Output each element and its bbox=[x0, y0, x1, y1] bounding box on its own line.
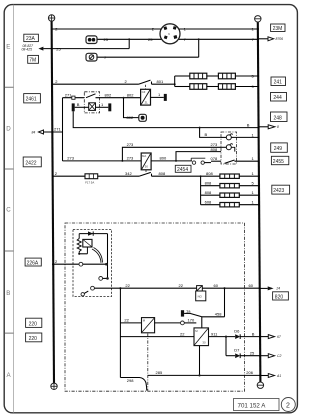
junction node bbox=[105, 263, 108, 266]
svg-text:1a: 1a bbox=[186, 308, 191, 313]
node 808 bbox=[200, 175, 202, 177]
svg-text:808: 808 bbox=[205, 181, 212, 186]
component box 220 lower bbox=[26, 333, 42, 342]
wire 271 row bbox=[63, 97, 85, 99]
wire to terminal bbox=[155, 322, 181, 324]
diode D7 bbox=[234, 347, 240, 358]
wire 5 to bus bbox=[235, 75, 259, 77]
connector flag left (motor row) bbox=[72, 103, 75, 111]
relay AR box bbox=[141, 153, 151, 170]
svg-text:25: 25 bbox=[56, 46, 61, 51]
wire 1 to connector flag bbox=[151, 96, 164, 98]
component box 23M bbox=[271, 24, 285, 32]
wire 7 U1 pin7 to right bus bbox=[179, 38, 259, 40]
svg-text:60: 60 bbox=[214, 283, 219, 288]
svg-text:2423: 2423 bbox=[273, 188, 284, 194]
svg-text:8: 8 bbox=[277, 125, 279, 129]
wire 802 bbox=[96, 97, 141, 99]
off-page arrow A1 bbox=[259, 375, 268, 377]
relay module dash-dot box bbox=[221, 132, 237, 164]
svg-text:808: 808 bbox=[206, 171, 213, 176]
off-page arrow 8706 bbox=[259, 38, 268, 40]
svg-text:249: 249 bbox=[274, 146, 283, 152]
svg-text:808: 808 bbox=[205, 190, 212, 195]
junction node bbox=[78, 253, 80, 255]
off-page arrow 24 bbox=[259, 287, 268, 289]
resistor R4 bbox=[218, 84, 235, 90]
inner dashed sub-box bbox=[73, 230, 112, 297]
svg-text:206: 206 bbox=[246, 370, 253, 375]
svg-text:241: 241 bbox=[274, 80, 283, 86]
component box 2461 bbox=[24, 94, 41, 103]
svg-text:23M: 23M bbox=[273, 26, 283, 32]
svg-text:C2: C2 bbox=[277, 354, 281, 358]
component box 2454 bbox=[175, 165, 191, 172]
wire 298 bbox=[120, 377, 139, 379]
contact arc bbox=[94, 248, 103, 263]
off-page arrow 67 bbox=[259, 336, 268, 338]
node 60 bbox=[223, 287, 225, 289]
svg-text:B: B bbox=[6, 290, 10, 297]
wire 808 link up bbox=[176, 152, 221, 161]
svg-text:25: 25 bbox=[104, 37, 109, 42]
wire 808 row bbox=[152, 175, 220, 177]
svg-text:342: 342 bbox=[125, 171, 132, 176]
off-page arrow B bbox=[268, 125, 275, 129]
relay coil 1 bbox=[226, 134, 232, 140]
relay coil 2 bbox=[226, 144, 232, 150]
horn symbol bbox=[86, 36, 97, 44]
wire 1 to bus bbox=[239, 194, 259, 196]
connector U1 round multi-pin bbox=[160, 24, 180, 44]
node 911 bbox=[225, 336, 227, 338]
branch to D7 bbox=[225, 337, 227, 356]
component box 220 upper bbox=[26, 318, 42, 327]
svg-text:22: 22 bbox=[124, 318, 129, 323]
wire 7 symbol row bbox=[97, 56, 199, 58]
title block 701 152 A bbox=[234, 399, 280, 411]
relay A box bbox=[142, 318, 155, 333]
switch link dashed bbox=[145, 85, 147, 90]
svg-text:25: 25 bbox=[148, 37, 153, 42]
bracket vertical bbox=[200, 176, 202, 205]
wire 808 row 2 bbox=[201, 185, 220, 187]
connector symbol bottom of right bus bbox=[257, 382, 263, 388]
off-page arrow C2 bbox=[259, 355, 268, 357]
svg-text:802: 802 bbox=[127, 92, 134, 97]
connector flag bbox=[164, 94, 167, 101]
off-page arrow 84 bbox=[39, 130, 44, 134]
wire 273 upper branch bbox=[122, 147, 221, 161]
svg-text:608: 608 bbox=[205, 200, 212, 205]
diode D5 bbox=[79, 231, 107, 235]
switch link dashed bbox=[145, 170, 147, 174]
svg-text:078: 078 bbox=[211, 156, 218, 161]
wire 5 to bus bbox=[239, 185, 259, 187]
terminal circle start of wire 22 bbox=[91, 286, 95, 290]
zone tick 3 bbox=[4, 250, 13, 252]
relay out wire 1 bbox=[221, 136, 226, 138]
svg-text:458: 458 bbox=[215, 312, 222, 317]
wire R3-R4 bbox=[207, 86, 219, 88]
resistor R1 bbox=[190, 73, 207, 79]
svg-text:2422: 2422 bbox=[25, 160, 36, 166]
pushbutton switch bbox=[191, 158, 205, 164]
wire 273 row bbox=[63, 160, 142, 162]
svg-text:801: 801 bbox=[157, 79, 164, 84]
wire 1 to bus bbox=[239, 175, 259, 177]
wire junction node bbox=[128, 38, 130, 40]
svg-text:B: B bbox=[247, 122, 250, 127]
svg-text:60: 60 bbox=[249, 283, 254, 288]
svg-text:271: 271 bbox=[65, 92, 72, 97]
svg-text:220: 220 bbox=[29, 336, 38, 342]
svg-text:273: 273 bbox=[127, 142, 134, 147]
svg-text:2455: 2455 bbox=[273, 159, 284, 165]
connector symbol top of left bus bbox=[48, 15, 54, 21]
zigzag element bbox=[77, 234, 81, 254]
svg-text:298: 298 bbox=[127, 378, 134, 383]
component box 7M bbox=[28, 55, 39, 63]
warning lamp bbox=[139, 114, 147, 121]
zone divider line bbox=[13, 5, 15, 413]
svg-text:C: C bbox=[6, 207, 11, 214]
vertical from node 60 bbox=[224, 288, 226, 317]
connector symbol top of right bus bbox=[255, 16, 261, 22]
wire 25 symbol to U1 pin25 bbox=[97, 38, 161, 40]
wire 078 bbox=[204, 162, 211, 164]
svg-text:285: 285 bbox=[156, 370, 163, 375]
component box 241 bbox=[271, 77, 286, 86]
resistor R2 bbox=[218, 73, 235, 79]
svg-text:2: 2 bbox=[286, 402, 290, 409]
wire 2 row (zone D) bbox=[52, 83, 139, 85]
svg-text:D7: D7 bbox=[234, 347, 240, 352]
svg-text:MA: MA bbox=[142, 154, 146, 158]
svg-text:E: E bbox=[6, 44, 10, 51]
wire 608 row 4 bbox=[201, 204, 220, 206]
svg-text:220: 220 bbox=[29, 321, 38, 327]
svg-text:273: 273 bbox=[127, 156, 134, 161]
svg-text:226A: 226A bbox=[27, 260, 39, 266]
relay contact blade bbox=[225, 160, 235, 163]
svg-text:701 152 A: 701 152 A bbox=[238, 402, 267, 409]
component box 23A bbox=[24, 34, 39, 41]
coil 2 link bbox=[231, 147, 235, 151]
svg-text:808: 808 bbox=[159, 171, 166, 176]
zone tick 2 bbox=[4, 168, 13, 170]
wire 2 bus to U1 pin2 bbox=[52, 28, 161, 30]
switch S3 blade bbox=[139, 80, 151, 84]
motor M box bbox=[89, 103, 96, 111]
component box 820 bbox=[273, 292, 289, 300]
svg-text:25: 25 bbox=[250, 351, 255, 356]
resistor ballast R8 bbox=[220, 203, 239, 207]
zone tick 1 bbox=[4, 86, 13, 88]
svg-text:248: 248 bbox=[274, 115, 283, 121]
ECU module dash-dot box bbox=[65, 223, 245, 391]
component box 2455 bbox=[271, 156, 288, 164]
component box 2422 bbox=[23, 157, 41, 167]
wire 801 bbox=[152, 83, 175, 85]
svg-text:08-425: 08-425 bbox=[22, 48, 33, 52]
wire 22 row bbox=[94, 287, 196, 289]
component box 226A bbox=[25, 258, 41, 266]
component box 249 bbox=[271, 143, 288, 152]
svg-text:67: 67 bbox=[277, 335, 281, 339]
node 800 bbox=[175, 160, 177, 162]
wire 2 row to module bbox=[52, 263, 79, 265]
relay coil box bbox=[83, 239, 92, 253]
switch housing dashed bbox=[84, 92, 99, 113]
svg-text:24: 24 bbox=[275, 286, 280, 290]
svg-text:7M: 7M bbox=[29, 58, 36, 64]
off-page arrow left bbox=[38, 47, 43, 51]
wire 802 lamp branch bbox=[124, 98, 139, 118]
wire 22 branch to relay A bbox=[120, 322, 141, 324]
wire junction node bbox=[198, 38, 200, 40]
component box 2423 bbox=[272, 185, 290, 194]
thermal contact bbox=[196, 286, 206, 301]
terminal circle bbox=[181, 321, 185, 325]
wire 60 bbox=[202, 287, 260, 289]
terminal square bbox=[72, 96, 75, 99]
wire 2 fuse row bbox=[52, 175, 85, 177]
node 802 bbox=[123, 97, 125, 99]
connector flag bbox=[108, 103, 111, 111]
wire to resistor R1 bbox=[175, 75, 190, 77]
wire 271 vertical riser bbox=[62, 98, 64, 161]
svg-text:22: 22 bbox=[180, 331, 185, 336]
sheet number circle 2 bbox=[281, 398, 295, 412]
svg-text:84: 84 bbox=[32, 130, 36, 134]
switch S5 blade bbox=[139, 172, 151, 176]
svg-text:800: 800 bbox=[160, 156, 167, 161]
component box 248 bbox=[271, 112, 288, 122]
bus bar left (30) bbox=[52, 21, 54, 383]
svg-text:50: 50 bbox=[145, 165, 149, 169]
svg-text:B: B bbox=[252, 332, 255, 337]
relay B bottom wire bbox=[199, 346, 201, 376]
fuse F17 bbox=[85, 174, 98, 185]
right vertical in sub-box bbox=[107, 234, 109, 279]
wire 1 to bus bbox=[239, 204, 259, 206]
resistor ballast R7 bbox=[220, 193, 239, 197]
brake switch bbox=[184, 308, 224, 328]
wire 342 bbox=[98, 175, 139, 177]
wire B to relay box bbox=[200, 128, 221, 138]
svg-text:22: 22 bbox=[179, 283, 184, 288]
wire 808 row 3 bbox=[201, 194, 220, 196]
svg-text:2461: 2461 bbox=[26, 97, 37, 103]
terminal circle with stub bbox=[99, 277, 103, 281]
relay out wire 1 lower bbox=[235, 160, 260, 162]
node 273 bbox=[121, 160, 123, 162]
svg-text:273: 273 bbox=[67, 156, 74, 161]
wire 25 bus row bbox=[43, 48, 129, 50]
wire B to motor bbox=[75, 106, 89, 108]
wire 22 to relay B bbox=[120, 336, 194, 338]
wire 1 U1 pin1 to right bus bbox=[179, 28, 259, 30]
svg-text:ZL: ZL bbox=[145, 101, 149, 105]
switch S4 blade bbox=[86, 94, 96, 98]
svg-text:8706: 8706 bbox=[276, 37, 284, 41]
wire 911 bbox=[209, 336, 236, 338]
svg-text:30: 30 bbox=[202, 341, 206, 345]
node 22 bbox=[119, 287, 121, 289]
wire 1 to flag bbox=[96, 106, 109, 108]
wire 285 206 row bbox=[148, 374, 261, 376]
symbol lamp with slash bbox=[86, 53, 97, 61]
resistor R3 bbox=[190, 84, 207, 90]
connector symbol bottom of left bus bbox=[51, 383, 57, 389]
svg-text:802: 802 bbox=[127, 115, 134, 120]
main vertical wire in module bbox=[119, 288, 121, 377]
wire R1-R2 bbox=[207, 75, 219, 77]
node 801 bbox=[174, 83, 176, 85]
svg-text:B: B bbox=[77, 102, 80, 107]
wire to resistor R3 bbox=[175, 86, 190, 88]
svg-text:B: B bbox=[205, 132, 208, 137]
svg-text:2454: 2454 bbox=[177, 167, 188, 173]
terminal circle bbox=[79, 262, 83, 266]
svg-text:820: 820 bbox=[275, 294, 284, 300]
svg-text:D: D bbox=[6, 126, 11, 133]
wire drop from motor row bbox=[73, 111, 259, 127]
svg-text:F17 5A: F17 5A bbox=[85, 181, 94, 185]
small terminal circle bbox=[81, 293, 84, 296]
svg-text:CZ: CZ bbox=[142, 90, 146, 94]
svg-text:22: 22 bbox=[125, 283, 130, 288]
wire B to bus bbox=[240, 336, 260, 338]
svg-text:911: 911 bbox=[211, 331, 218, 336]
wire 271 off-page row bbox=[43, 131, 62, 133]
node on long wire bbox=[199, 127, 201, 129]
svg-text:23A: 23A bbox=[26, 36, 36, 42]
internal partition dash-dot bbox=[147, 334, 149, 391]
svg-text:808: 808 bbox=[211, 147, 218, 152]
svg-text:271: 271 bbox=[54, 127, 61, 132]
wire 800 bbox=[151, 160, 192, 162]
resistor ballast R6 bbox=[220, 184, 239, 188]
diode D6 bbox=[234, 328, 240, 339]
svg-text:D6: D6 bbox=[234, 328, 240, 333]
flasher unit box CZ bbox=[141, 89, 151, 105]
component box 244 bbox=[271, 93, 287, 102]
svg-text:170: 170 bbox=[188, 318, 195, 323]
wire 25 to bus bbox=[240, 355, 260, 357]
wire 9 to bus bbox=[235, 86, 259, 88]
svg-text:A1: A1 bbox=[276, 374, 281, 378]
svg-text:802: 802 bbox=[105, 92, 112, 97]
svg-text:244: 244 bbox=[273, 95, 282, 101]
brake switch flag bbox=[181, 310, 184, 316]
zone tick 4 bbox=[4, 332, 13, 334]
bus bar right (earth) bbox=[258, 22, 261, 382]
relay B box bbox=[194, 328, 209, 346]
resistor ballast R5 bbox=[220, 174, 239, 178]
